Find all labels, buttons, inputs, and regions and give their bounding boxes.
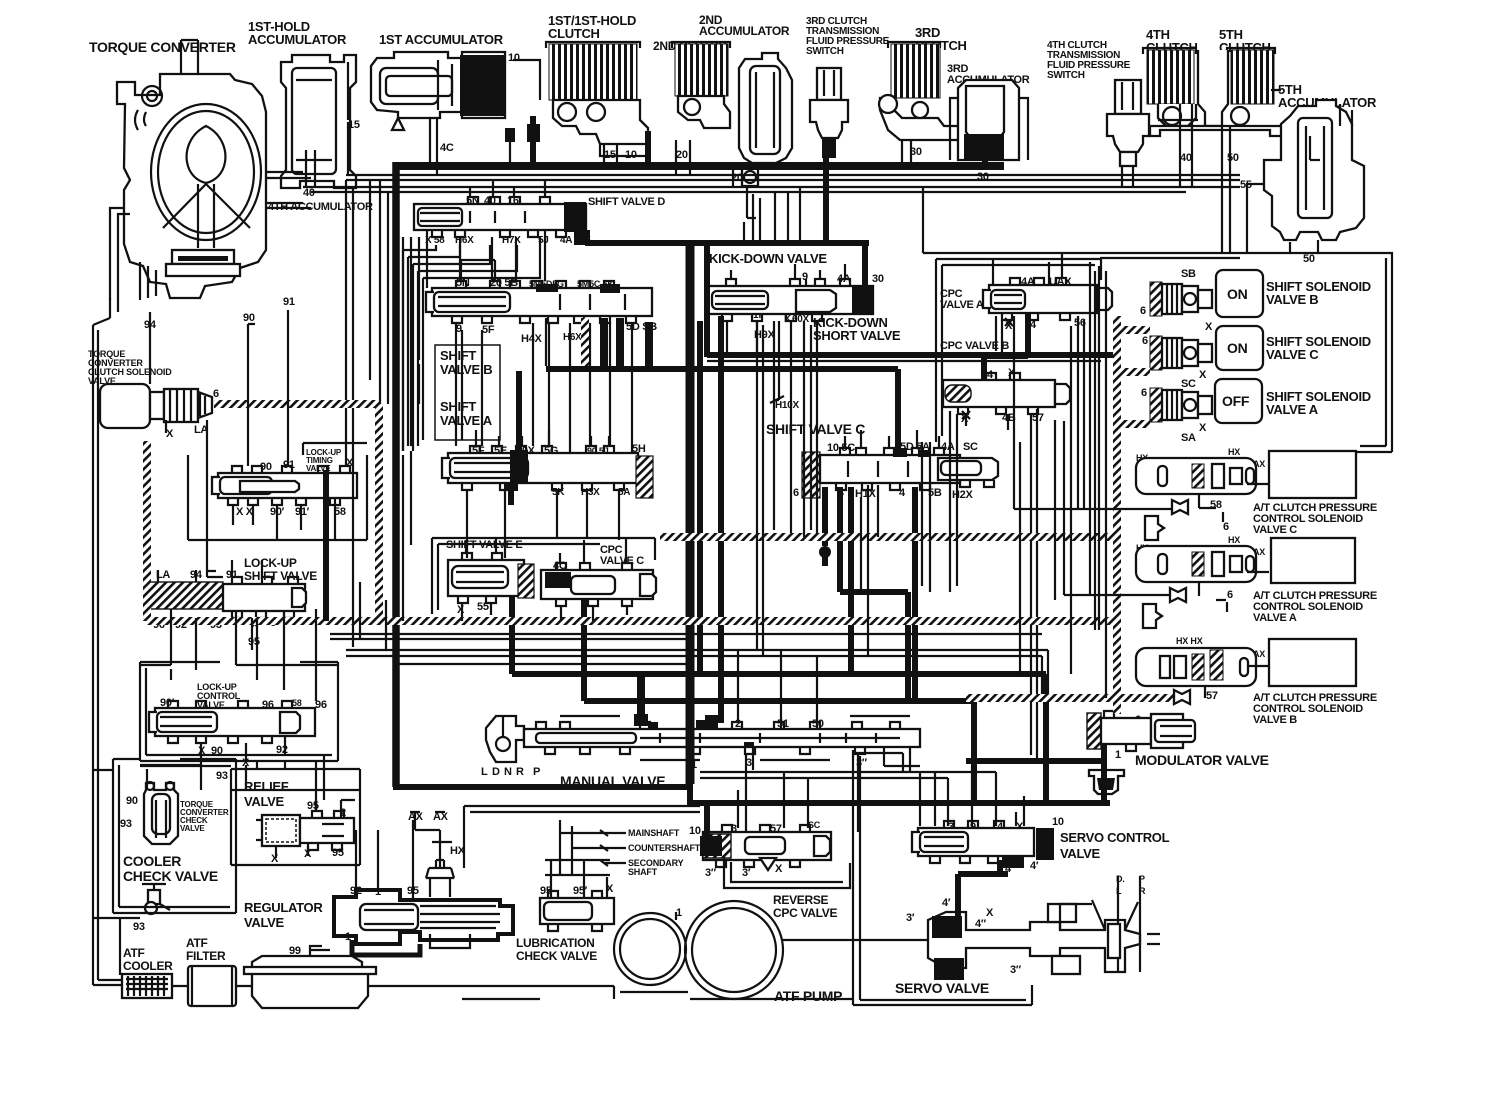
svg-text:4′: 4′ [942,897,951,909]
svg-text:MAINSHAFT: MAINSHAFT [628,828,680,838]
svg-text:VALVE C: VALVE C [1253,524,1297,536]
svg-text:90: 90 [126,795,138,807]
H4X/H6X verticals [533,323,632,453]
svg-text:4″: 4″ [975,918,987,930]
svg-text:H10X: H10X [775,400,799,411]
svg-text:6: 6 [1227,589,1233,601]
servo right detail [1060,904,1160,944]
svg-text:OFF: OFF [1222,393,1250,409]
solenoid SC [1150,336,1212,370]
right thin verticals to AT solenoids [1014,262,1099,630]
manual valve [486,716,920,762]
svg-text:6: 6 [1142,335,1148,347]
black port under shift valve D [574,230,590,245]
svg-text:H2X: H2X [952,489,973,501]
2nd accum 20 [733,163,756,218]
regulator to bus wires [356,806,700,870]
svg-text:ATF PUMP: ATF PUMP [774,988,842,1004]
2nd accumulator [739,53,792,186]
left main thick vertical [392,162,400,787]
4th clutch [1143,48,1196,104]
svg-text:SWITCH: SWITCH [806,46,844,57]
thick 721 to manual 25 [705,316,721,723]
svg-text:X: X [1205,321,1213,333]
wire 40 drop [306,150,315,187]
svg-text:ATF: ATF [123,946,145,960]
cpc valve C spool [541,563,656,606]
svg-text:X: X [775,863,783,875]
misc stubs [476,430,609,446]
svg-text:VALVE B: VALVE B [1253,714,1297,726]
shiftB top ports to bus [461,260,495,281]
right long verticals [1055,271,1106,698]
ATF filter [188,966,236,1006]
svg-text:X X: X X [236,506,254,518]
svg-text:CHECK VALVE: CHECK VALVE [123,868,218,884]
svg-text:VALVE A: VALVE A [440,413,493,428]
svg-text:ACCUMULATOR: ACCUMULATOR [248,32,347,47]
bus 649/656 doubles [346,650,1048,700]
4 thick of shiftE [509,596,515,600]
left lower verticals [140,665,338,680]
svg-text:6: 6 [213,388,219,400]
svg-text:VALVE: VALVE [1060,846,1101,861]
right box edge [1360,258,1386,446]
kickdown lower doubles [707,361,1101,530]
lock-up control box [140,662,338,761]
4th clutch transmission fluid pressure switch [1107,80,1149,166]
svg-text:N: N [504,766,512,778]
svg-text:3′: 3′ [906,912,915,924]
svg-text:CPC VALVE: CPC VALVE [773,906,837,920]
shiftA bottom stubs [467,490,619,540]
svg-text:SWITCH: SWITCH [1047,70,1085,81]
ATF pump [614,901,783,999]
svg-text:SA: SA [1181,432,1196,444]
lockup shift valve stubs [158,560,262,582]
5th accumulator [1264,100,1364,240]
wire 4C [430,118,437,175]
CPC valves enclosing box [936,259,1101,442]
svg-text:VALVE: VALVE [244,794,285,809]
servo control to servo thick [958,860,1008,916]
thick 690 [686,246,695,784]
ATF cooler-filter-pan links [172,986,614,999]
svg-text:VALVE: VALVE [180,824,205,833]
cooler check box [113,759,236,913]
56 vertical [1078,316,1084,509]
svg-text:93: 93 [216,770,228,782]
left bundle verticals [370,180,419,621]
svg-text:20: 20 [676,149,688,161]
bowtie connectors [1170,500,1190,704]
svg-text:1ST ACCUMULATOR: 1ST ACCUMULATOR [379,32,504,47]
svg-text:KICK-DOWN VALVE: KICK-DOWN VALVE [709,251,827,266]
shift valve A spool [442,446,653,498]
reverse cpc valve [700,825,831,870]
thin bus y175 [346,175,1240,180]
solenoid SB [1150,282,1212,316]
kick-down thick frame [585,230,1114,357]
svg-text:VALVE B: VALVE B [1266,292,1318,307]
wire 3-doubleprime jog [856,753,903,772]
1st accumulator connector blacks [505,128,515,142]
svg-text:HX: HX [1228,535,1240,545]
A/T clutch pressure control solenoid valve A [1136,538,1355,583]
A/T clutch pressure control solenoid valve C [1136,451,1356,498]
svg-text:50: 50 [1227,152,1239,164]
reverse cpc feeds [704,800,710,836]
svg-text:MODULATOR VALVE: MODULATOR VALVE [1135,752,1269,768]
relief valve [256,800,354,850]
pump-servo bottom lines [614,986,688,999]
shift valve B spool [426,281,652,323]
svg-text:6: 6 [793,487,799,499]
svg-text:40: 40 [1180,152,1192,164]
5th clutch 50 drop [1222,126,1230,253]
regulator feeds [356,842,452,900]
CPC A thick 4 [984,314,1028,380]
extra mid verticals [861,485,878,655]
svg-text:SHIFT: SHIFT [440,348,476,363]
svg-text:HX HX: HX HX [1176,636,1203,646]
svg-text:LOCK-UP: LOCK-UP [244,556,297,570]
manual-servo doubles [884,747,935,826]
95 wire [251,618,253,650]
3rd accum 30 [982,160,988,165]
3rd clutch [879,42,960,140]
regulator valve [334,860,513,955]
svg-text:5K: 5K [552,487,565,498]
bus187 to kickdown verticals [744,187,800,243]
shiftB black drops [605,318,648,366]
ATF pan/strainer [244,946,376,1008]
wire 15 hold-acc [347,122,349,175]
thick bus366 [546,369,898,455]
svg-text:3″: 3″ [705,867,717,879]
svg-text:1: 1 [1115,749,1121,761]
svg-text:93: 93 [133,921,145,933]
svg-text:HX: HX [1228,447,1240,457]
kick-down label leader [805,279,807,286]
svg-text:3″: 3″ [1010,964,1022,976]
shift solenoid ON box C [1216,326,1263,370]
2nd clutch 20 [676,140,690,175]
lubrication check valve spool [540,891,614,931]
svg-text:VALVE C: VALVE C [1266,347,1319,362]
hatched buses [214,400,379,408]
manual thin ports [691,651,858,832]
svg-text:5F: 5F [482,324,495,336]
atf pump links [676,912,928,999]
bus 700/701 thick [584,599,974,803]
cpc valve A spool [983,278,1112,320]
cooler check valve symbol [142,884,170,914]
shift C top thick 899 already; small blacks [893,448,907,457]
servo valve [928,876,1140,980]
reverse cpc box below [724,856,850,888]
shift valve E / CPC C box [432,538,655,614]
shift valve E spool [448,553,534,603]
servo control valve [912,821,1054,868]
shift C bottom thick drops [825,487,915,701]
svg-text:VALVE B: VALVE B [440,362,492,377]
svg-text:30: 30 [872,273,884,285]
relief box [231,769,360,865]
torque converter clutch solenoid valve [100,384,212,428]
1st acc black drop thick [530,116,536,162]
AT solenoid hooks [1199,484,1269,698]
svg-text:6: 6 [1140,305,1146,317]
shiftE top stubs [466,537,496,553]
svg-text:FILTER: FILTER [186,949,226,963]
svg-text:10: 10 [689,825,701,837]
svg-text:ATF: ATF [186,936,208,950]
extra bus line [330,638,688,640]
servo valve box [853,750,1032,1005]
2nd clutch [672,42,730,128]
4th clutch 40 drop [1180,104,1192,187]
clutch 15/10 drops [604,145,617,162]
left area vertical extensions [353,577,386,650]
svg-text:X: X [1199,369,1207,381]
thick 519 drop [516,371,522,450]
CPC A top feeds [993,253,1062,285]
5th accum 55 [1247,184,1264,253]
svg-text:CLUTCH: CLUTCH [548,26,600,41]
svg-text:10: 10 [508,52,520,64]
1st/1st-hold clutch [546,42,648,156]
svg-text:REGULATOR: REGULATOR [244,900,323,915]
svg-text:ON: ON [1227,286,1248,302]
hatched vertical at 585 [581,318,589,366]
bottom-left joiners [201,755,324,800]
black drops thicker [604,318,649,366]
svg-text:VALVE A: VALVE A [940,299,984,311]
kick-down drop bundle [757,321,811,656]
solenoid SA [1150,388,1212,422]
control valve bottom stubs [201,736,285,761]
svg-text:H4X: H4X [521,333,542,345]
svg-text:CHECK VALVE: CHECK VALVE [516,949,597,963]
svg-text:57: 57 [1206,690,1218,702]
svg-text:SHIFT VALVE C: SHIFT VALVE C [766,421,865,437]
extra doubles right bundle [1020,271,1095,674]
svg-text:LUBRICATION: LUBRICATION [516,936,594,950]
kickdown top feeds [753,194,760,243]
main top thick bus [396,162,1004,170]
cpc area drops [922,316,1002,592]
svg-text:VALVE A: VALVE A [1266,402,1319,417]
svg-text:H6X: H6X [563,332,582,343]
svg-text:TORQUE CONVERTER: TORQUE CONVERTER [89,39,236,55]
lock-up timing box [188,443,367,540]
5th accum bottom 50 [1317,240,1319,253]
svg-text:SERVO VALVE: SERVO VALVE [895,980,989,996]
svg-text:6: 6 [1223,521,1229,533]
thin verticals shiftD area [346,180,427,577]
staircase wires shiftD to shiftB [403,237,540,278]
svg-text:30: 30 [977,171,989,183]
svg-text:COOLER: COOLER [123,959,173,973]
svg-text:R: R [516,766,524,778]
57 thick from CPC B [1031,409,1037,761]
cpc valve B spool [943,373,1070,414]
doubles under relief/lockup [93,766,360,975]
svg-text:RELIEF: RELIEF [244,779,289,794]
svg-text:60X: 60X [792,314,810,325]
svg-text:SB: SB [1181,268,1196,280]
svg-text:93: 93 [120,818,132,830]
timing valve stubs [233,498,335,540]
X marks [962,318,1013,419]
svg-text:91′: 91′ [295,506,310,518]
manual valve box bottom thick [393,784,1110,803]
H10X mark [770,396,784,403]
cpc C top stubs [560,537,626,563]
svg-text:COOLER: COOLER [123,853,181,869]
modulator valve [1087,711,1195,794]
wire manual valve port 4 feed [637,676,645,722]
svg-text:ACCUMULATOR: ACCUMULATOR [699,24,790,38]
shift solenoid ON box B [1216,270,1263,317]
shift E / cpcC stubs [462,603,627,621]
lock-up shift valve [147,577,306,618]
kick-down bottom thin [727,321,817,537]
doubles to servo control [700,766,996,826]
torque converter check valve [144,782,178,844]
svg-text:SHORT VALVE: SHORT VALVE [813,328,901,343]
svg-text:L: L [481,766,488,778]
svg-text:SC: SC [963,441,978,453]
shift valve D spool [414,197,586,237]
svg-text:D: D [492,766,500,778]
shaft tick marks [600,830,608,866]
3rd switch thick drop [823,158,829,246]
3rd accumulator [950,80,1028,160]
svg-text:VALVE: VALVE [244,915,285,930]
svg-text:6: 6 [1141,387,1147,399]
svg-text:58: 58 [292,698,302,708]
extra horizontal doubles [267,203,1042,664]
svg-text:REVERSE: REVERSE [773,893,829,907]
bell below [1089,770,1124,794]
svg-text:4C: 4C [440,142,454,154]
lubrication up wires [545,820,610,875]
thin bus y187 [303,187,1240,192]
50 down right side [1318,253,1392,452]
svg-text:ON: ON [1227,340,1248,356]
3rd clutch 30 [902,140,911,165]
svg-text:X: X [166,428,174,440]
svg-text:95′: 95′ [573,885,588,897]
poppet symbols [1143,516,1164,628]
svg-text:3′: 3′ [742,867,751,879]
extra doubles lower-left [140,765,246,790]
horizontal stub 5th [1158,90,1281,120]
kick-down valve spool [708,279,873,321]
57/4B stubs [966,414,1008,430]
3rd clutch transmission fluid pressure switch [810,68,848,158]
lock-up control valve spool [149,701,315,743]
svg-text:91: 91 [283,296,295,308]
bus 253 [923,188,1318,258]
shift solenoid OFF box A [1215,379,1262,423]
1st-hold accumulator [281,55,356,188]
lockup area wires [150,310,288,577]
bus 674 thick [512,596,1046,801]
svg-text:SHIFT VALVE D: SHIFT VALVE D [588,196,665,208]
svg-text:10: 10 [1052,816,1064,828]
shiftA drops to E box [467,525,587,558]
ATF cooler [122,974,172,998]
shift valve B/A label box [435,345,500,440]
A/T clutch pressure control solenoid valve B [1136,639,1356,686]
thick 700 second [697,321,703,674]
shiftB left ports down [456,323,482,446]
5th clutch [1150,48,1310,136]
svg-text:VALVE A: VALVE A [1253,612,1297,624]
shift valve C spool [802,448,998,498]
svg-text:COUNTERSHAFT: COUNTERSHAFT [628,843,701,853]
svg-text:P: P [533,766,540,778]
right side verticals doubles [1290,104,1352,253]
4th switch drop [1122,166,1133,187]
1st accumulator [371,52,505,130]
svg-text:SHAFT: SHAFT [628,867,658,877]
svg-text:50: 50 [1303,253,1315,265]
svg-text:58: 58 [1210,499,1222,511]
svg-text:H3X: H3X [581,487,600,498]
torque converter [110,40,266,300]
bus 761 thick + modulator feed [966,745,1104,803]
svg-text:X: X [986,907,994,919]
svg-text:SC: SC [1181,378,1196,390]
svg-text:SHIFT: SHIFT [440,399,476,414]
svg-text:SHIFT VALVE: SHIFT VALVE [244,569,317,583]
svg-text:CPC VALVE B: CPC VALVE B [940,340,1009,352]
svg-text:4′: 4′ [1030,860,1039,872]
lock-up timing valve spool [212,466,357,505]
svg-text:90: 90 [243,312,255,324]
lubrication feeds [545,875,610,898]
svg-text:SERVO CONTROL: SERVO CONTROL [1060,830,1170,845]
svg-text:X: X [1199,422,1207,434]
